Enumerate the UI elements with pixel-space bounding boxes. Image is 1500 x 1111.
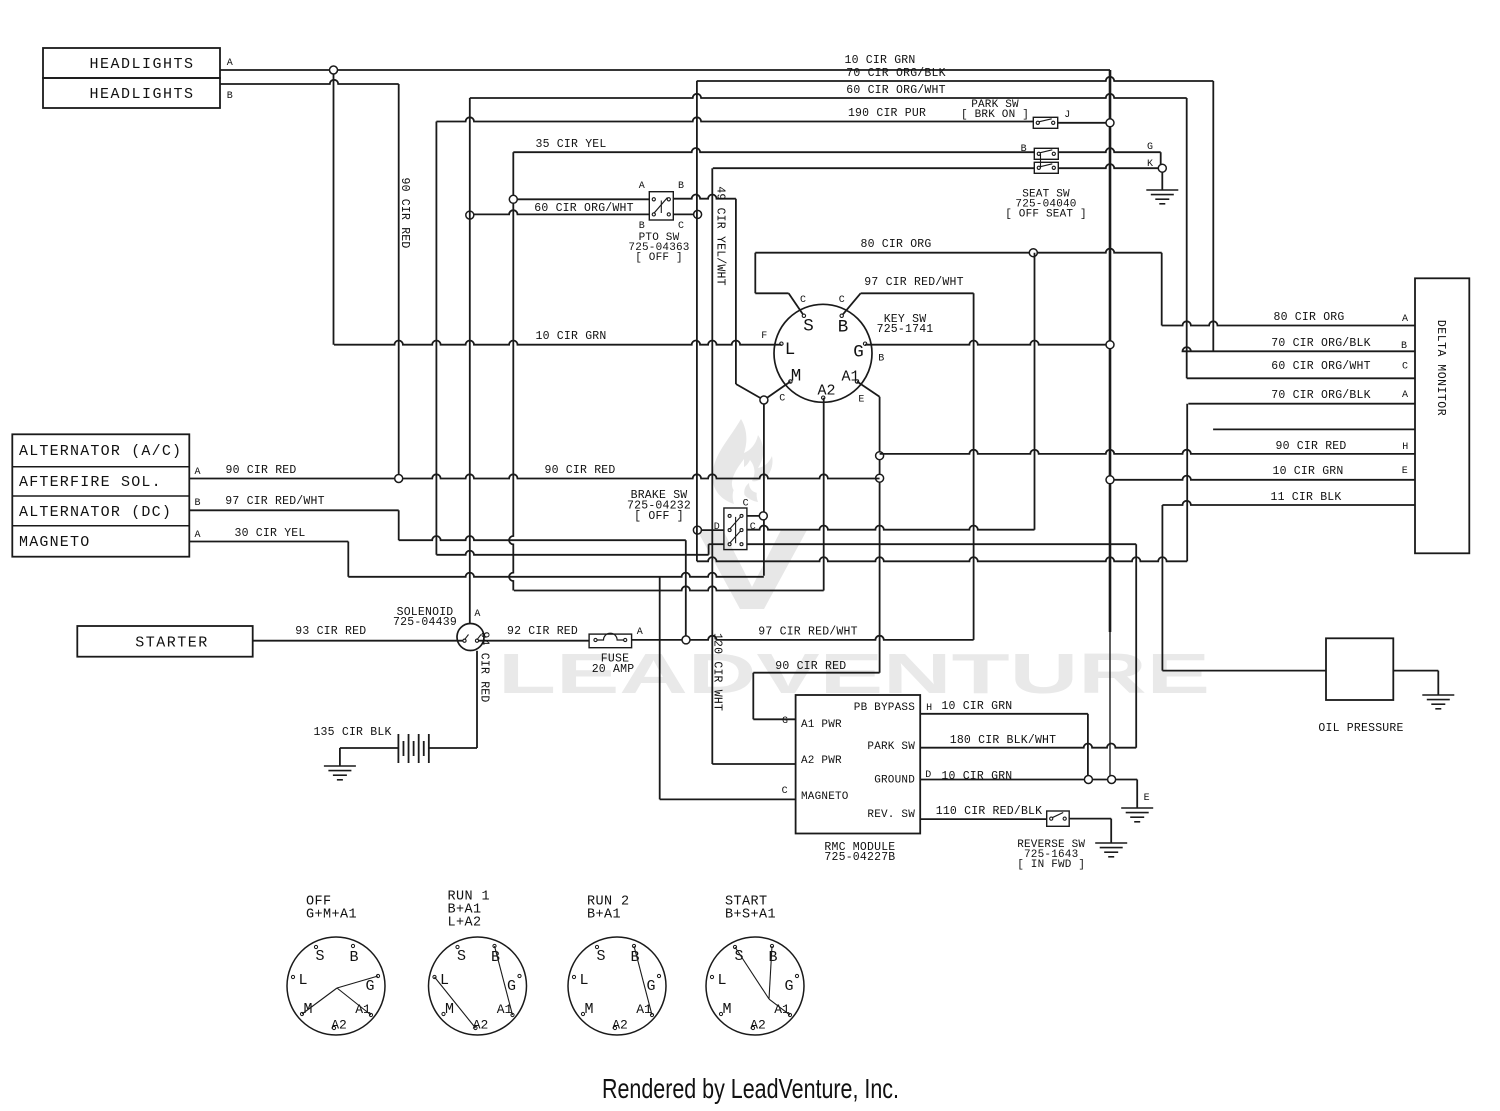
svg-text:MAGNETO: MAGNETO: [801, 791, 849, 803]
svg-text:[ BRK ON ]: [ BRK ON ]: [961, 109, 1029, 121]
svg-text:80 CIR ORG: 80 CIR ORG: [860, 238, 931, 251]
svg-text:C: C: [678, 221, 684, 232]
ground (RMC E): [1121, 808, 1153, 822]
svg-text:C: C: [800, 295, 806, 306]
wire 90 CIR RED riser from headlight B: [398, 84, 400, 479]
wire key M diagonal: [764, 382, 791, 401]
wire into DELTA pin B: [1183, 347, 1416, 351]
svg-text:L: L: [298, 972, 307, 989]
svg-text:ALTERNATOR (DC): ALTERNATOR (DC): [19, 504, 172, 521]
svg-text:B: B: [1021, 144, 1027, 155]
svg-text:E: E: [1402, 466, 1408, 477]
wire oil ground riser: [1437, 671, 1439, 695]
svg-text:135 CIR BLK: 135 CIR BLK: [313, 726, 391, 739]
svg-text:A: A: [195, 530, 201, 541]
svg-text:S: S: [315, 948, 324, 965]
svg-text:A2: A2: [612, 1018, 628, 1033]
wire 97 CIR RED/WHT from ALT DC: [189, 509, 398, 511]
wire B horizontal: [861, 292, 974, 294]
junction green bus / G row: [1106, 341, 1114, 349]
svg-text:A: A: [639, 181, 645, 192]
divider row3: [12, 525, 189, 527]
wire 10 CIR GRN top (headlight A to x1110): [220, 69, 1110, 71]
svg-text:M: M: [722, 1001, 731, 1018]
wire A2 riser down: [823, 398, 825, 591]
svg-text:C: C: [750, 522, 756, 533]
svg-text:A2: A2: [473, 1018, 489, 1033]
switch SEAT SW upper: [1034, 148, 1058, 159]
wire 190 CIR PUR: [436, 117, 1033, 121]
svg-text:B: B: [768, 949, 777, 966]
svg-text:H: H: [926, 703, 932, 714]
svg-text:C: C: [782, 786, 788, 797]
svg-text:11 CIR BLK: 11 CIR BLK: [1270, 491, 1341, 504]
svg-text:S: S: [803, 317, 814, 337]
divider row1: [12, 466, 189, 468]
fuse FUSE 20 AMP: [589, 634, 632, 648]
junction 90red / headlight riser: [395, 475, 403, 483]
ground (seat sw): [1146, 190, 1178, 204]
svg-text:C: C: [779, 394, 785, 405]
ground (battery): [324, 766, 356, 780]
wire riser x1187 to DELTA pin C: [1186, 98, 1188, 378]
wire A1 riser down: [879, 397, 881, 673]
wire pto A line: [513, 198, 649, 200]
svg-text:A: A: [227, 58, 233, 69]
wire riser to DELTA pin A: [1161, 253, 1163, 326]
wire 97 CIR RED/WHT bottom: [632, 636, 974, 640]
wire battery to 94 riser: [429, 747, 477, 749]
svg-text:70 CIR ORG/BLK: 70 CIR ORG/BLK: [846, 67, 945, 80]
svg-text:B: B: [678, 181, 684, 192]
svg-text:G: G: [853, 343, 864, 363]
wire 90 CIR RED H row: [880, 450, 1415, 454]
connector box HEADLIGHTS (bottom): [43, 78, 220, 108]
rotary diagram START: [706, 937, 804, 1035]
wire into DELTA pin C: [1187, 377, 1415, 379]
wire brake D tie line: [436, 551, 708, 555]
svg-text:120 CIR WHT: 120 CIR WHT: [711, 633, 724, 711]
wire 11 blk riser to oil pressure: [1161, 505, 1163, 671]
svg-text:B+S+A1: B+S+A1: [725, 908, 776, 923]
wire seat K to ground junction: [1058, 164, 1162, 168]
junction ground row / pb riser: [1084, 776, 1092, 784]
wire brake C mid to 80org riser: [747, 526, 1035, 530]
wire 92 CIR RED solenoid to fuse: [479, 640, 590, 642]
solenoid tick R: [477, 635, 481, 640]
svg-text:B: B: [838, 318, 849, 338]
svg-text:90 CIR RED: 90 CIR RED: [225, 464, 296, 477]
switch PARK SW: [1033, 117, 1057, 128]
svg-text:OIL PRESSURE: OIL PRESSURE: [1318, 722, 1403, 735]
wire 30yel lower run: [348, 573, 764, 577]
wire into RMC G pin: [753, 718, 795, 720]
wire brake C top to junction: [747, 515, 763, 517]
svg-text:B: B: [349, 949, 358, 966]
svg-text:93 CIR RED: 93 CIR RED: [295, 625, 366, 638]
svg-text:[ IN FWD ]: [ IN FWD ]: [1017, 859, 1085, 871]
svg-text:10 CIR GRN: 10 CIR GRN: [1272, 465, 1343, 478]
wire 90 CIR RED main: [189, 474, 879, 478]
svg-text:725-1741: 725-1741: [877, 323, 934, 336]
svg-text:B: B: [639, 221, 645, 232]
wire 120 CIR WHT riser (seat K to RMC A2 PWR): [711, 168, 713, 764]
junction key M / 49yel: [760, 396, 768, 404]
svg-text:725-04227B: 725-04227B: [824, 851, 895, 864]
box DELTA MONITOR: [1415, 278, 1469, 553]
svg-text:10 CIR GRN: 10 CIR GRN: [535, 330, 606, 343]
wire riser x334 from junction to 10 CIR GRN lower: [333, 74, 335, 345]
wire to seat ground: [1161, 172, 1163, 190]
wire B diagonal: [842, 293, 861, 316]
svg-text:[ OFF SEAT ]: [ OFF SEAT ]: [1005, 209, 1087, 221]
svg-text:G: G: [784, 978, 793, 995]
wire 30 CIR YEL from MAGNETO: [189, 541, 348, 543]
svg-text:G: G: [507, 978, 516, 995]
svg-text:60 CIR ORG/WHT: 60 CIR ORG/WHT: [534, 202, 633, 215]
junction A1 riser / H line: [876, 452, 884, 460]
junction A1 riser / 90 red end: [876, 474, 884, 482]
wire 90 CIR RED to RMC A1 PWR: [753, 672, 879, 674]
wire 11 CIR BLK row: [1162, 501, 1415, 505]
svg-text:J: J: [1064, 110, 1070, 121]
svg-text:60 CIR ORG/WHT: 60 CIR ORG/WHT: [1271, 360, 1370, 373]
svg-text:[ OFF ]: [ OFF ]: [634, 510, 684, 523]
wire reverse sw to ground riser: [1069, 818, 1111, 820]
svg-text:S: S: [457, 948, 466, 965]
svg-text:HEADLIGHTS: HEADLIGHTS: [89, 56, 194, 73]
svg-text:94 CIR RED: 94 CIR RED: [478, 631, 491, 702]
wire 70 CIR ORG/BLK top: [697, 77, 1214, 81]
svg-text:M: M: [445, 1001, 454, 1018]
wire riser pto junction down to A2 line: [509, 203, 513, 590]
svg-text:B: B: [227, 91, 233, 102]
svg-text:A1 PWR: A1 PWR: [801, 719, 842, 731]
wire 10 CIR GRN lower left (to key L): [334, 341, 781, 345]
svg-text:M: M: [791, 367, 802, 387]
svg-text:HEADLIGHTS: HEADLIGHTS: [89, 86, 194, 103]
wire diagonal to key M junction: [736, 384, 764, 400]
svg-text:F: F: [761, 331, 767, 342]
box STARTER: [77, 626, 252, 657]
rotary diagram RUN 1: [429, 937, 527, 1035]
svg-text:M: M: [584, 1001, 593, 1018]
svg-text:H: H: [1402, 442, 1408, 453]
wire brake lower-left stub: [709, 543, 724, 545]
svg-text:Rendered by LeadVenture, Inc.: Rendered by LeadVenture, Inc.: [602, 1073, 899, 1104]
brake lever 1: [730, 517, 741, 529]
svg-text:L: L: [440, 972, 449, 989]
junction pto C / 70orgblk riser: [694, 210, 702, 218]
wire 30yel riser: [347, 542, 349, 577]
svg-text:G: G: [365, 978, 374, 995]
wire headlight B: [220, 80, 399, 84]
junction pto A / 35yel riser: [509, 195, 517, 203]
svg-text:A2: A2: [331, 1018, 347, 1033]
wire 49 yel/wht riser: [735, 199, 737, 384]
svg-text:STARTER: STARTER: [135, 635, 209, 652]
wire 93 CIR RED starter to solenoid: [253, 640, 463, 642]
ground (oil pressure): [1422, 695, 1454, 709]
svg-text:B: B: [195, 498, 201, 509]
ground (reverse sw): [1095, 843, 1127, 857]
box RMC MODULE: [796, 695, 921, 834]
svg-text:[ OFF ]: [ OFF ]: [635, 252, 683, 264]
svg-text:70 CIR ORG/BLK: 70 CIR ORG/BLK: [1271, 337, 1370, 350]
wire to OIL PRESSURE box: [1162, 670, 1326, 672]
svg-text:PB BYPASS: PB BYPASS: [854, 702, 915, 714]
junction fuse / 97 riser: [682, 636, 690, 644]
junction green bus / E row: [1106, 476, 1114, 484]
wire 97 mid segment: [399, 536, 686, 540]
wire seat sw K line (120 CIR WHT riser top): [713, 167, 1035, 169]
svg-text:G: G: [646, 978, 655, 995]
svg-text:G+M+A1: G+M+A1: [306, 908, 357, 923]
svg-text:MAGNETO: MAGNETO: [19, 534, 90, 551]
svg-text:90 CIR RED: 90 CIR RED: [775, 660, 846, 673]
svg-text:49 CIR YEL/WHT: 49 CIR YEL/WHT: [714, 186, 727, 285]
junction ground row / green bus: [1108, 776, 1116, 784]
svg-text:C: C: [839, 295, 845, 306]
wire riser 190pur to tie line: [435, 122, 437, 555]
svg-text:AFTERFIRE SOL.: AFTERFIRE SOL.: [19, 474, 162, 491]
svg-text:A: A: [195, 467, 201, 478]
svg-text:S: S: [734, 948, 743, 965]
junction pto B / solenoid riser: [466, 211, 474, 219]
switch PTO SW: [649, 192, 673, 220]
svg-text:90 CIR RED: 90 CIR RED: [1275, 440, 1346, 453]
wire B riser down to 97 line: [973, 293, 975, 640]
wire riser 35yel to pto junction: [512, 152, 514, 195]
svg-text:L: L: [717, 972, 726, 989]
wire stub row into DELTA: [1213, 428, 1415, 430]
svg-text:GROUND: GROUND: [874, 775, 915, 787]
wire park sw to green bus: [1058, 122, 1110, 124]
wire key G to green bus: [865, 341, 1110, 345]
battery: [398, 734, 428, 763]
svg-text:A2: A2: [817, 383, 835, 400]
wire riser to RMC park line: [1135, 544, 1137, 748]
wire key A1 diagonal: [857, 382, 880, 397]
svg-text:C: C: [743, 499, 749, 510]
wire vertical 10 CIR GRN bus (thin lower): [1109, 632, 1111, 780]
svg-text:B: B: [878, 354, 884, 365]
box OIL PRESSURE: [1326, 638, 1393, 700]
wire 35 CIR YEL to seat sw B: [513, 148, 1034, 152]
svg-text:A: A: [637, 627, 643, 638]
wire 10 CIR GRN ground row: [920, 779, 1137, 781]
wire riser 30yel to RMC MAGNETO: [659, 577, 661, 800]
svg-text:80 CIR ORG: 80 CIR ORG: [1273, 311, 1344, 324]
svg-text:K: K: [1147, 159, 1153, 170]
wire riser x1213 to DELTA pin B: [1212, 81, 1214, 351]
svg-text:E: E: [858, 394, 864, 405]
brake link: [735, 517, 737, 543]
wire into DELTA pin A: [1162, 321, 1415, 325]
switch SEAT SW lower: [1034, 162, 1058, 173]
junction headlight A / riser: [330, 66, 338, 74]
wire 10 CIR GRN E row: [1110, 476, 1415, 480]
wire S horizontal: [755, 292, 788, 294]
mechanical link seat sw: [1040, 154, 1042, 168]
wire 70orgblk bottom run: [697, 557, 1187, 561]
wire pb bypass riser: [1087, 714, 1089, 780]
wire 10 CIR GRN PB BYPASS: [920, 713, 1088, 715]
svg-text:A: A: [474, 609, 480, 620]
wire reverse ground riser: [1110, 819, 1112, 843]
wire solenoid riser (60orgwht to solenoid A): [469, 98, 471, 623]
wire brake lower-left riser: [708, 544, 710, 555]
svg-text:30 CIR YEL: 30 CIR YEL: [234, 527, 305, 540]
wire 97 riser to fuse junction: [685, 540, 687, 640]
svg-text:92 CIR RED: 92 CIR RED: [507, 625, 578, 638]
wire 70 CIR ORG/BLK riser (pto C, brake D): [696, 81, 698, 561]
svg-text:90 CIR RED: 90 CIR RED: [544, 464, 615, 477]
connector box HEADLIGHTS (top): [43, 48, 220, 78]
wire brake lower-right to park riser: [747, 543, 1136, 545]
svg-text:190 CIR PUR: 190 CIR PUR: [848, 107, 926, 120]
svg-text:REV. SW: REV. SW: [867, 809, 915, 821]
solenoid SOLENOID 725-04439: [457, 624, 484, 651]
wire into RMC MAGNETO pin: [660, 798, 796, 800]
junction park sw / green bus: [1106, 119, 1114, 127]
svg-text:97 CIR RED/WHT: 97 CIR RED/WHT: [758, 626, 857, 639]
junction brake D / 70orgblk riser: [693, 526, 701, 534]
wire 94 CIR RED riser: [476, 651, 478, 748]
wire S diagonal: [789, 293, 804, 316]
switch REVERSE SW: [1047, 811, 1070, 826]
wire S riser: [754, 253, 756, 294]
svg-text:10 CIR GRN: 10 CIR GRN: [844, 54, 915, 67]
svg-text:A1: A1: [841, 369, 859, 386]
brake lever 2: [730, 531, 741, 543]
pto lever: [654, 198, 668, 214]
svg-text:C: C: [1402, 362, 1408, 373]
svg-text:L+A2: L+A2: [448, 916, 482, 931]
svg-text:20 AMP: 20 AMP: [592, 663, 635, 676]
svg-text:G: G: [782, 716, 788, 727]
wire 60 CIR ORG/WHT top: [470, 94, 1187, 98]
svg-text:L: L: [785, 340, 796, 360]
pto link: [660, 201, 662, 214]
wire oil pressure to ground: [1393, 670, 1438, 672]
svg-text:E: E: [1144, 793, 1150, 804]
svg-text:A2 PWR: A2 PWR: [801, 755, 842, 767]
junction 80 org / brake riser: [1029, 249, 1037, 257]
svg-text:70 CIR ORG/BLK: 70 CIR ORG/BLK: [1271, 389, 1370, 402]
svg-text:10 CIR GRN: 10 CIR GRN: [941, 700, 1012, 713]
svg-text:D: D: [714, 522, 720, 533]
wire 97 riser jog: [398, 510, 400, 540]
svg-text:DELTA MONITOR: DELTA MONITOR: [1434, 320, 1447, 416]
svg-text:A: A: [1402, 314, 1408, 325]
svg-text:60 CIR ORG/WHT: 60 CIR ORG/WHT: [846, 84, 945, 97]
divider row2: [12, 495, 189, 497]
svg-text:S: S: [596, 948, 605, 965]
wire pto B lower to solenoid riser: [470, 210, 650, 214]
wire vertical 10 CIR GRN bus (bold): [1109, 70, 1112, 632]
solenoid tick L: [465, 635, 469, 640]
wire 80 CIR ORG: [755, 249, 1161, 253]
wire into DELTA pin A(lower): [1188, 403, 1415, 405]
wire brake D: [697, 529, 724, 531]
rotary diagram RUN 2: [568, 937, 666, 1035]
svg-text:L: L: [579, 972, 588, 989]
wire pto B upper (49 CIR YEL/WHT): [673, 194, 736, 198]
junction seat K ground: [1158, 164, 1166, 172]
wire riser brake-C to 80org junction: [1034, 253, 1036, 530]
svg-text:725-04439: 725-04439: [393, 616, 457, 629]
svg-text:97 CIR RED/WHT: 97 CIR RED/WHT: [864, 276, 963, 289]
wire A2 to pto-junction line: [514, 586, 824, 590]
svg-text:97 CIR RED/WHT: 97 CIR RED/WHT: [225, 495, 324, 508]
wire into RMC A2 PWR: [712, 763, 795, 765]
wire 180 CIR BLK/WHT park sw row: [920, 744, 1136, 748]
svg-text:PARK SW: PARK SW: [867, 741, 915, 753]
svg-text:A: A: [1402, 390, 1408, 401]
connector stack outline: [12, 434, 189, 556]
svg-text:10 CIR GRN: 10 CIR GRN: [941, 770, 1012, 783]
wire M riser down to 30yel corner: [763, 404, 765, 576]
wire seat sw G: [1058, 148, 1160, 152]
svg-text:35 CIR YEL: 35 CIR YEL: [535, 138, 606, 151]
svg-text:G: G: [1147, 142, 1153, 153]
watermark leadventure logo flame: [697, 419, 807, 609]
svg-text:180 CIR BLK/WHT: 180 CIR BLK/WHT: [950, 734, 1057, 747]
wire battery ground riser: [339, 748, 341, 766]
switch BRAKE SW 725-04232: [724, 508, 747, 550]
key switch KEY SW 725-1741: [774, 304, 872, 402]
svg-text:B+A1: B+A1: [587, 908, 621, 923]
wire pto C to 70orgblk riser: [673, 213, 697, 215]
svg-text:B: B: [1401, 341, 1407, 352]
wire 110 CIR RED/BLK to reverse sw: [920, 818, 1046, 820]
wire riser to RMC G pin: [752, 673, 754, 720]
wire G corner riser: [1160, 152, 1162, 168]
svg-text:A2: A2: [750, 1018, 766, 1033]
svg-text:ALTERNATOR (A/C): ALTERNATOR (A/C): [19, 443, 182, 460]
svg-text:110 CIR RED/BLK: 110 CIR RED/BLK: [936, 805, 1043, 818]
junction brake C / M riser: [759, 512, 767, 520]
rotary diagram OFF: [287, 937, 385, 1035]
svg-text:90 CIR RED: 90 CIR RED: [398, 177, 411, 248]
wire riser to DELTA pin A2: [1186, 404, 1188, 562]
wire 135 CIR BLK battery to ground: [340, 747, 399, 749]
wire riser to E ground: [1136, 780, 1138, 809]
